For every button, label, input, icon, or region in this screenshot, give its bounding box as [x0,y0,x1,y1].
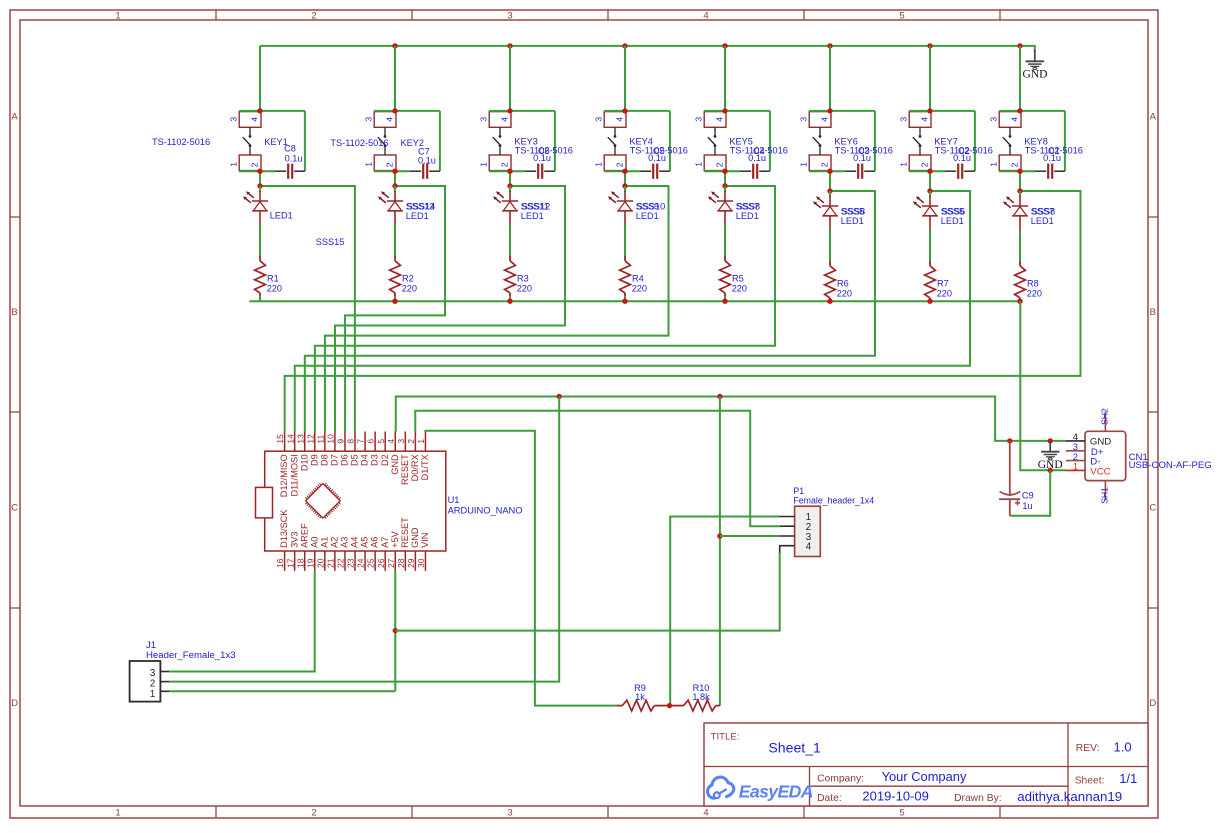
svg-text:1: 1 [479,162,489,167]
wire KEY4 pin2 down to LED node [624,171,626,186]
wire KEY6 signal loop to Arduino [305,191,875,432]
key switch KEY3 (TS-1102-5016) [479,111,555,171]
wire KEY4 signal loop to Arduino [325,186,669,432]
svg-text:3V3: 3V3 [289,532,299,548]
svg-text:10: 10 [326,434,336,444]
svg-text:4: 4 [384,117,394,122]
svg-text:LED1: LED1 [270,210,293,220]
svg-text:R2: R2 [402,274,414,284]
junction dot KEY1 pin 2 [257,169,262,174]
LED LED1 (key 6) [813,191,838,231]
svg-text:SSS14: SSS14 [407,201,436,211]
junction dot +5V branch [393,628,398,633]
svg-text:TITLE:: TITLE: [711,732,740,743]
junction dot KEY7 pin 2 [927,169,932,174]
svg-text:2: 2 [384,162,394,167]
wire R2 to VCC rail [394,296,396,301]
svg-text:2: 2 [311,11,316,22]
svg-text:3: 3 [479,117,489,122]
wire KEY1 signal loop to Arduino [260,186,355,432]
svg-text:SSS6: SSS6 [942,206,966,216]
junction dot KEY4 pin 4 [622,108,627,113]
svg-text:D0/RX: D0/RX [410,454,420,481]
capacitor C9 1u (polarized) [999,441,1020,516]
U1 center chip diamond [305,483,340,518]
wire R8 to VCC rail [1019,300,1021,302]
U1 left tab [256,487,273,518]
svg-text:220: 220 [517,283,532,293]
svg-text:220: 220 [937,288,952,298]
svg-text:1: 1 [1073,461,1078,472]
svg-text:1: 1 [115,808,120,819]
svg-text:3: 3 [364,117,374,122]
capacitor C5 0.1u [640,164,670,179]
svg-text:GND: GND [390,454,400,475]
key switch KEY8 (TS-1102-5016) [989,111,1065,171]
svg-text:USB-CON-AF-PEG: USB-CON-AF-PEG [1129,460,1212,471]
wire KEY2 pin2 down to LED node [394,171,396,186]
svg-text:18: 18 [295,558,305,568]
svg-text:29: 29 [406,558,416,568]
U1 top pin leads and numbers [275,432,426,452]
svg-text:D: D [11,698,18,709]
junction dot KEY2 LED node [392,183,397,188]
wire from GND rail to KEY8 pin 4 [1019,46,1021,111]
svg-text:A0: A0 [309,537,319,548]
svg-text:LED1: LED1 [1031,216,1054,226]
svg-text:REV:: REV: [1076,743,1100,754]
svg-text:16: 16 [275,558,285,568]
svg-text:C: C [1149,503,1156,514]
svg-text:3: 3 [507,11,512,22]
svg-text:3: 3 [150,668,156,679]
svg-text:D5: D5 [350,454,360,466]
junction dots on top GND rail [392,43,1022,48]
svg-text:8: 8 [346,439,356,444]
svg-text:0.1u: 0.1u [748,153,766,163]
LED LED1 (key 8) [1003,191,1028,231]
svg-text:30: 30 [416,558,426,568]
LED LED1 (key 5) [708,186,733,226]
junction dot KEY5 LED node [722,183,727,188]
svg-text:15: 15 [275,434,285,444]
wire top GND rail [260,46,1035,52]
svg-text:R7: R7 [937,279,949,289]
wire LED to R5 [724,225,726,257]
svg-text:R3: R3 [517,274,529,284]
junction dot KEY8 LED node [1017,188,1022,193]
key switch KEY1 (TS-1102-5016) [229,111,305,171]
wire from GND rail to KEY4 pin 4 [624,46,626,111]
svg-text:GND: GND [1038,459,1063,471]
svg-text:0.1u: 0.1u [648,153,666,163]
svg-text:AREF: AREF [299,523,309,548]
svg-text:1: 1 [150,689,156,700]
svg-text:A7: A7 [380,537,390,548]
svg-text:D9: D9 [309,454,319,466]
wire LED to R7 [929,230,931,262]
svg-text:2: 2 [819,162,829,167]
svg-text:B: B [1150,307,1156,318]
svg-text:3: 3 [989,117,999,122]
junction dot KEY3 pin 2 [507,169,512,174]
svg-text:LED1: LED1 [841,216,864,226]
wire from GND rail to KEY1 pin 4 [259,46,261,111]
svg-text:SSS15: SSS15 [316,237,345,247]
svg-text:17: 17 [285,558,295,568]
svg-text:220: 220 [837,288,852,298]
svg-text:3: 3 [594,117,604,122]
wire KEY5 signal loop to Arduino [315,186,775,432]
wire from GND rail to KEY7 pin 4 [929,46,931,111]
svg-text:D13/SCK: D13/SCK [279,509,289,548]
wire KEY8 pin2 to capacitor [999,170,1035,172]
svg-text:SH1: SH1 [1100,487,1110,504]
svg-text:1: 1 [416,439,426,444]
svg-text:A4: A4 [350,537,360,548]
capacitor C7 0.1u [410,164,440,179]
U1 bottom pin leads and numbers [275,551,426,571]
svg-text:2: 2 [499,162,509,167]
svg-text:A3: A3 [340,537,350,548]
junction dot GND line / ground symbol [1048,438,1053,443]
resistor R1 220 [255,256,266,296]
junction dot KEY8 pin 2 [1017,169,1022,174]
U1 bottom pin names [279,509,430,548]
svg-text:GND: GND [410,527,420,548]
wire KEY8 signal loop to Arduino [285,191,1081,432]
svg-text:220: 220 [732,283,747,293]
svg-text:3: 3 [799,117,809,122]
svg-text:2: 2 [1009,162,1019,167]
junction dot KEY6 pin 2 [827,169,832,174]
capacitor C2 0.1u [945,164,975,179]
svg-text:2019-10-09: 2019-10-09 [862,789,929,804]
svg-text:D12/MISO: D12/MISO [279,454,289,497]
svg-text:R5: R5 [732,274,744,284]
ground symbol top right [1023,50,1048,80]
svg-text:LED1: LED1 [521,211,544,221]
svg-text:13: 13 [295,434,305,444]
wire LED to R1 [259,225,261,257]
svg-text:A1: A1 [319,537,329,548]
connector P1 Female_header_1x4 [779,506,821,556]
svg-text:Company:: Company: [817,774,864,785]
LED LED1 (key 4) [608,186,633,226]
wire GND down to P1 pin3 and R10 [719,397,721,706]
svg-text:R4: R4 [632,274,644,284]
svg-text:B: B [11,307,17,318]
resistor R5 220 [720,256,731,296]
wire J1 pin2 to GND [169,397,559,682]
wire A0 pin19 to J1 pin3 [169,571,315,672]
svg-text:220: 220 [267,283,282,293]
wire KEY4 pin2 to capacitor [604,170,640,172]
svg-text:R6: R6 [837,279,849,289]
wire P1 pin3 [720,535,779,537]
key switch KEY2 (TS-1102-5016) [364,111,440,171]
junction dot VCC/C9 branch [1048,468,1053,473]
svg-text:1/1: 1/1 [1119,771,1137,786]
wire R7 to VCC rail [929,300,931,302]
svg-text:2: 2 [311,808,316,819]
svg-text:23: 23 [346,558,356,568]
svg-text:1: 1 [364,162,374,167]
junction dot GND/R10 branch [717,394,722,399]
wire KEY3 signal loop to Arduino [335,186,565,432]
svg-text:1.0: 1.0 [1114,739,1132,754]
key switch KEY4 (TS-1102-5016) [594,111,670,171]
svg-text:VIN: VIN [420,533,430,548]
wire D0/RX pin2 to P1 pin2 [415,411,780,526]
capacitor C6 0.1u [525,164,555,179]
svg-text:4: 4 [703,11,708,22]
svg-text:220: 220 [402,283,417,293]
svg-text:7: 7 [356,439,366,444]
LED LED1 (key 7) [913,191,938,231]
svg-text:3: 3 [507,808,512,819]
svg-text:Sheet_1: Sheet_1 [768,740,821,756]
svg-text:SSS8: SSS8 [737,201,761,211]
wire LED to R2 [394,225,396,257]
svg-text:1u: 1u [1022,501,1032,511]
U1 top pin names [279,454,430,497]
wire KEY8 pin2 down to LED node [1019,171,1021,191]
svg-text:20: 20 [315,558,325,568]
wire R4 to VCC rail [624,296,626,301]
junction dot KEY1 LED node [257,183,262,188]
wire KEY6 pin2 to capacitor [809,170,845,172]
wire C9 bottom to VCC [1010,470,1050,516]
key switch KEY5 (TS-1102-5016) [694,111,770,171]
wire R3 to VCC rail [509,296,511,301]
LED LED1 (key 1) [243,186,268,226]
svg-text:1: 1 [229,162,239,167]
svg-text:1.8k: 1.8k [692,692,710,702]
wire KEY1 pin2 down to LED node [259,171,261,186]
key switch KEY6 (TS-1102-5016) [799,111,875,171]
EasyEDA logo [707,777,812,801]
svg-text:4: 4 [714,117,724,122]
resistor R7 220 [925,261,936,301]
resistor R10 1.8k [670,700,720,711]
svg-text:SSS12: SSS12 [522,201,551,211]
svg-text:1: 1 [989,162,999,167]
svg-text:2: 2 [406,439,416,444]
wire R1 to VCC rail [259,296,261,301]
wire LED to R3 [509,225,511,257]
title block [704,723,1148,806]
wire KEY7 pin2 to capacitor [909,170,945,172]
svg-text:1: 1 [694,162,704,167]
wire from GND rail to KEY6 pin 4 [829,46,831,111]
svg-text:C8: C8 [284,144,296,154]
svg-text:adithya.kannan19: adithya.kannan19 [1017,789,1122,804]
svg-text:220: 220 [632,283,647,293]
svg-text:11: 11 [315,435,325,444]
connector J1 Header_Female_1x3 [130,661,170,702]
svg-text:Female_header_1x4: Female_header_1x4 [793,495,874,505]
junction dot KEY5 pin 2 [722,169,727,174]
svg-text:5: 5 [376,439,386,444]
LED LED1 (key 2) [378,186,403,226]
svg-text:A: A [11,112,18,123]
capacitor C1 0.1u [1035,164,1065,179]
svg-text:26: 26 [376,558,386,568]
svg-text:RESET: RESET [400,454,410,485]
junction dot KEY3 pin 4 [507,108,512,113]
wire GND net: pin4 up, right, down to USB [396,397,1066,441]
connector CN1 USB-CON-AF-PEG [1066,412,1126,500]
svg-text:3: 3 [396,439,406,444]
svg-text:D3: D3 [370,454,380,466]
svg-text:9: 9 [336,439,346,444]
wire R5 to VCC rail [724,296,726,301]
svg-text:SH2: SH2 [1100,408,1110,425]
wire from GND rail to KEY3 pin 4 [509,46,511,111]
svg-text:ARDUINO_NANO: ARDUINO_NANO [448,506,523,516]
junction dot P1 pin3 [717,533,722,538]
svg-text:1: 1 [799,162,809,167]
wire J1 pin1 [169,690,395,692]
svg-text:A2: A2 [330,537,340,548]
svg-text:Date:: Date: [817,793,842,804]
svg-text:0.1u: 0.1u [1043,153,1061,163]
junction dot KEY3 LED node [507,183,512,188]
wire LED to R6 [829,230,831,262]
resistor R2 220 [390,256,401,296]
junction dot KEY5 pin 4 [722,108,727,113]
wire KEY3 pin2 to capacitor [489,170,525,172]
wire LED to R4 [624,225,626,257]
svg-text:D8: D8 [319,454,329,466]
svg-text:Your Company: Your Company [882,769,967,784]
svg-text:3: 3 [899,117,909,122]
svg-text:4: 4 [819,117,829,122]
svg-text:R8: R8 [1027,279,1039,289]
svg-text:4: 4 [249,117,259,122]
svg-text:4: 4 [806,542,812,553]
svg-text:5: 5 [899,808,904,819]
svg-text:R1: R1 [267,274,279,284]
svg-text:D4: D4 [360,454,370,466]
svg-text:SSS8: SSS8 [1032,206,1056,216]
svg-text:0.1u: 0.1u [953,153,971,163]
svg-text:1: 1 [899,162,909,167]
junction dot KEY7 pin 4 [927,108,932,113]
svg-text:RESET: RESET [400,517,410,548]
resistor R8 220 [1015,261,1026,301]
svg-text:+5V: +5V [390,530,400,547]
svg-text:GND: GND [1090,436,1111,447]
wire VCC rail down to USB pin1 [1020,301,1066,470]
svg-text:Drawn By:: Drawn By: [954,793,1002,804]
LED LED1 (key 3) [493,186,518,226]
svg-text:2: 2 [614,162,624,167]
svg-text:C9: C9 [1022,491,1034,501]
wire +5V pin27 down to J1 pin1 [394,571,396,692]
svg-text:0.1u: 0.1u [285,153,303,163]
svg-text:12: 12 [305,434,315,444]
svg-text:D: D [1149,698,1156,709]
svg-text:A5: A5 [360,537,370,548]
svg-text:22: 22 [336,558,346,568]
junction dot KEY4 pin 2 [622,169,627,174]
junction dot KEY6 pin 4 [827,108,832,113]
svg-text:LED1: LED1 [406,211,429,221]
capacitor C3 0.1u [845,164,875,179]
junction dot R9/R10 [667,703,672,708]
svg-text:0.1u: 0.1u [418,155,436,165]
svg-text:220: 220 [1027,288,1042,298]
wire R6 to VCC rail [829,300,831,302]
svg-text:14: 14 [285,434,295,444]
svg-text:0.1u: 0.1u [533,153,551,163]
svg-text:D11/MOSI: D11/MOSI [289,454,299,496]
wire KEY3 pin2 down to LED node [509,171,511,186]
resistor R9 1k [617,700,670,711]
svg-text:2: 2 [249,162,259,167]
svg-text:2: 2 [150,679,156,690]
svg-text:4: 4 [703,808,708,819]
svg-text:D6: D6 [340,454,350,466]
svg-text:C: C [11,503,18,514]
svg-text:5: 5 [899,11,904,22]
ground symbol near USB [1038,441,1063,471]
junction dot KEY1 pin 4 [257,108,262,113]
wire VCC rail under resistors [249,300,1020,302]
svg-text:D1/TX: D1/TX [420,454,430,480]
svg-text:EasyEDA: EasyEDA [739,782,813,802]
wire from GND rail to KEY2 pin 4 [394,46,396,111]
svg-text:P1: P1 [793,486,804,496]
wire LED to R8 [1019,230,1021,262]
svg-text:3: 3 [229,117,239,122]
op-amp U1 ARDUINO_NANO body [265,451,446,551]
svg-text:0.1u: 0.1u [853,153,871,163]
svg-text:D2: D2 [380,454,390,466]
resistor R6 220 [825,261,836,301]
junction dot KEY2 pin 2 [392,169,397,174]
wire KEY2 pin2 to capacitor [374,170,410,172]
wire KEY5 pin2 down to LED node [724,171,726,186]
svg-text:21: 21 [326,558,336,568]
junction dots on VCC rail [392,299,1022,304]
junction dot KEY7 LED node [927,188,932,193]
svg-text:2: 2 [714,162,724,167]
svg-text:Sheet:: Sheet: [1075,775,1105,786]
svg-text:6: 6 [366,439,376,444]
svg-text:3: 3 [694,117,704,122]
svg-text:TS-1102-5016: TS-1102-5016 [152,137,210,147]
svg-text:D10: D10 [299,454,309,471]
wire from GND rail to KEY5 pin 4 [724,46,726,111]
svg-text:25: 25 [366,558,376,568]
svg-text:24: 24 [356,558,366,568]
svg-text:U1: U1 [448,495,460,505]
svg-text:D7: D7 [330,454,340,466]
svg-text:GND: GND [1023,68,1048,80]
junction dot GND line / C9 top [1007,438,1012,443]
svg-text:1: 1 [594,162,604,167]
svg-text:A6: A6 [370,537,380,548]
wire KEY1 pin2 to capacitor [239,170,275,172]
wire D1/TX pin1 to R9 [425,431,617,706]
svg-text:1k: 1k [635,692,645,702]
junction dot GND/J1 branch [557,394,562,399]
junction dot KEY6 LED node [827,188,832,193]
key switch KEY7 (TS-1102-5016) [899,111,975,171]
